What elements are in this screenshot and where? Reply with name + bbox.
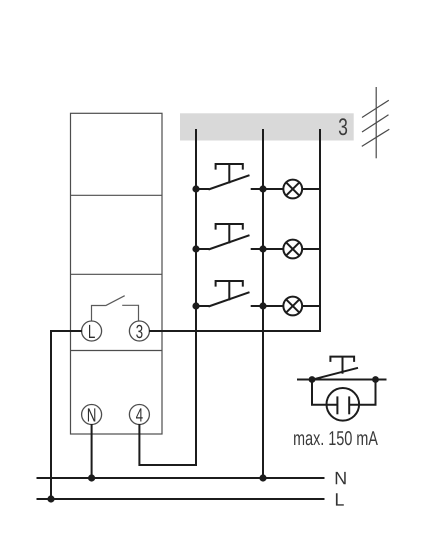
junction dot S1 left — [192, 185, 199, 192]
terminal N — [82, 405, 102, 425]
lamp E1 — [283, 180, 320, 199]
push button S3 — [196, 281, 283, 307]
relay contact inside timer — [92, 296, 139, 321]
lamp E2 — [283, 240, 320, 259]
wire bus A (buttons) — [139, 129, 196, 465]
push button S1 — [196, 164, 283, 190]
illuminated push button S4 wire — [297, 379, 387, 381]
junction dot S3 left — [192, 302, 199, 309]
label L — [336, 493, 344, 505]
junction dot S3 right — [259, 302, 266, 309]
push button S2 — [196, 224, 283, 250]
wire bus C (switched output) — [149, 129, 320, 331]
junction dot L-wire/L-line — [47, 495, 54, 502]
terminal 4 — [129, 405, 149, 425]
label max. 150 mA — [294, 431, 378, 445]
lamp E3 — [283, 297, 320, 316]
junction dot S2 right — [259, 245, 266, 252]
junction dot bus B/N-line — [259, 474, 266, 481]
junction dot S4 right — [372, 376, 379, 383]
wire N drop — [91, 424, 93, 478]
N line — [37, 477, 325, 479]
glow lamp H1 — [312, 380, 376, 421]
junction dot S2 left — [192, 245, 199, 252]
timer device box U1 — [71, 113, 163, 434]
wire bus B (neutral to lamps) — [262, 129, 264, 478]
distribution bar — [180, 113, 354, 140]
terminal 3 — [129, 321, 149, 341]
push button S4 — [312, 357, 359, 380]
junction dot S4 left — [309, 376, 316, 383]
terminal L — [82, 321, 102, 341]
3-conductor cable hatch — [362, 87, 390, 158]
label N — [336, 472, 346, 484]
junction dot S1 right — [259, 185, 266, 192]
wire L to terminal — [51, 331, 82, 499]
label 3 (wire count) — [339, 118, 347, 135]
L line — [37, 498, 325, 500]
junction dot N-terminal/N-line — [88, 474, 95, 481]
